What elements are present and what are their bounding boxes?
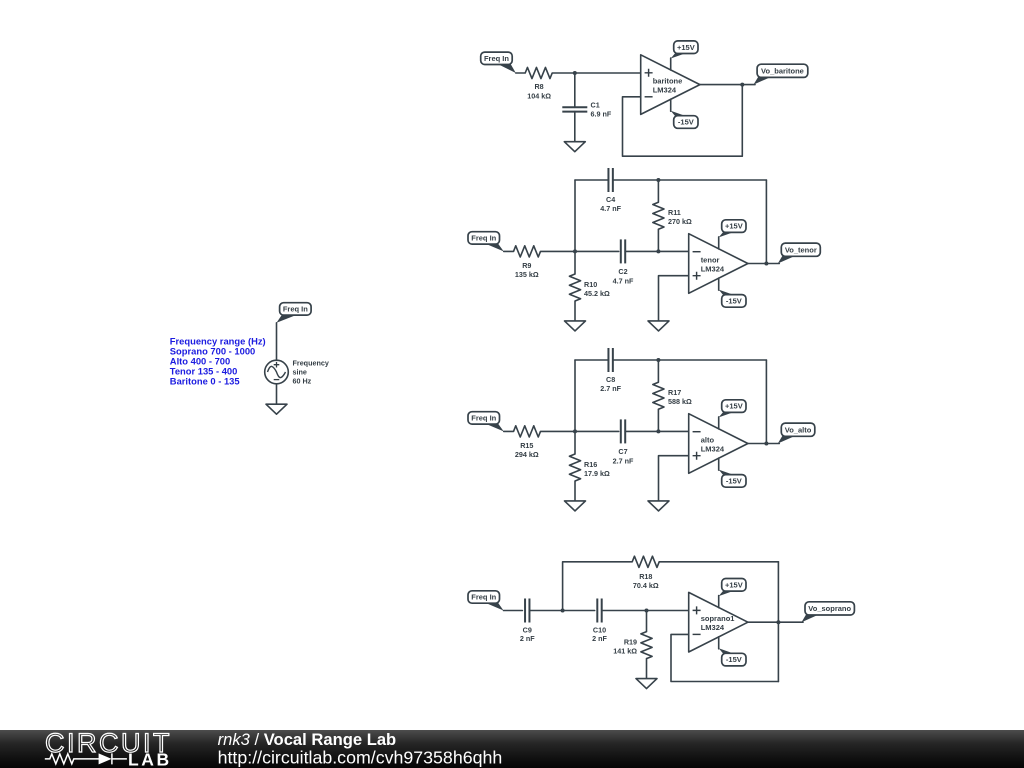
node output junction: [764, 442, 768, 446]
voltage source V1 Frequency sine 60 Hz: [265, 360, 289, 384]
node output junction: [740, 83, 744, 87]
svg-text:Freq In: Freq In: [471, 414, 496, 423]
ground (non-inverting input): [648, 321, 669, 331]
op-amp tenor LM324: [689, 234, 748, 294]
svg-text:http://circuitlab.com/cvh97358: http://circuitlab.com/cvh97358h6qhh: [218, 748, 503, 768]
node junction R8/C1: [573, 71, 577, 75]
node junction R15: [573, 429, 577, 433]
capacitor C7: [620, 419, 622, 443]
svg-text:+15V: +15V: [725, 402, 743, 411]
wire (R17 bottom lead): [657, 409, 659, 431]
wire (power pin): [718, 458, 720, 470]
svg-text:R18: R18: [639, 572, 652, 581]
resistor R18: [632, 556, 659, 567]
wire: [504, 250, 514, 252]
wire (R11 bottom lead): [657, 229, 659, 251]
svg-text:LM324: LM324: [701, 264, 725, 273]
net flag Vo_soprano: [802, 614, 821, 622]
wire (power pin): [670, 58, 672, 70]
svg-text:270 kΩ: 270 kΩ: [668, 217, 692, 226]
ground (non-inverting input): [648, 501, 669, 511]
svg-text:R15: R15: [520, 441, 533, 450]
wire (feedback loop soprano): [671, 634, 778, 681]
svg-text:Freq In: Freq In: [484, 54, 509, 63]
svg-text:R11: R11: [668, 208, 681, 217]
svg-text:Freq In: Freq In: [471, 593, 496, 602]
node output junction soprano: [776, 620, 780, 624]
net flag Freq In: [484, 423, 504, 432]
power flag -15V (tenor): [719, 290, 736, 296]
resistor R8: [525, 67, 552, 78]
wire (+ input to ground): [659, 456, 689, 501]
svg-text:baritone: baritone: [653, 76, 683, 85]
svg-text:LM324: LM324: [653, 85, 677, 94]
CircuitLab logo: diode: [99, 753, 112, 764]
wire: [504, 610, 523, 612]
net flag Freq In (source): [277, 315, 296, 323]
net flag Freq In (baritone): [496, 63, 516, 73]
wire: [516, 72, 525, 74]
svg-text:R16: R16: [584, 460, 597, 469]
svg-text:60 Hz: 60 Hz: [293, 377, 312, 386]
svg-text:Baritone 0 - 135: Baritone 0 - 135: [170, 376, 240, 387]
svg-text:+15V: +15V: [725, 222, 743, 231]
svg-text:Vo_soprano: Vo_soprano: [808, 604, 851, 613]
wire: [504, 430, 514, 432]
wire (top left): [575, 359, 609, 361]
wire (C1 top lead): [574, 73, 576, 107]
svg-text:R8: R8: [534, 82, 543, 91]
wire (power pin): [718, 417, 720, 429]
svg-text:2 nF: 2 nF: [520, 634, 535, 643]
svg-text:R9: R9: [522, 261, 531, 270]
power flag +15V (alto): [719, 411, 736, 417]
svg-text:C1: C1: [591, 101, 600, 110]
svg-text:Vo_baritone: Vo_baritone: [761, 66, 804, 75]
net flag Freq In: [484, 243, 504, 252]
wire (R18 to output): [659, 561, 778, 563]
power flag -15V (baritone): [671, 111, 688, 117]
wire (power pin): [670, 99, 672, 111]
ground (below R16): [565, 501, 586, 511]
node junction C2/R11: [656, 249, 660, 253]
capacitor C1 plates: [562, 106, 587, 108]
wire (R17 top lead): [657, 360, 659, 382]
wire (output): [700, 84, 755, 86]
svg-text:Vo_alto: Vo_alto: [785, 425, 812, 434]
wire (feedback to output): [765, 360, 767, 443]
wire (R11 top lead): [657, 180, 659, 202]
svg-text:C8: C8: [606, 375, 615, 384]
wire (top right): [613, 359, 767, 361]
wire: [552, 72, 641, 74]
net flag Vo_baritone: [754, 76, 773, 84]
wire (R10 top lead): [574, 251, 576, 274]
wire (up to R18): [563, 562, 633, 611]
CircuitLab logo: resistor-diode squiggle: [45, 754, 100, 764]
wire (output): [748, 443, 779, 445]
wire (feedback to output): [765, 180, 767, 263]
op-amp soprano1 LM324: [689, 592, 748, 652]
svg-text:LM324: LM324: [701, 623, 725, 632]
power flag +15V (soprano1): [719, 590, 736, 596]
svg-text:rnk3 / Vocal Range Lab: rnk3 / Vocal Range Lab: [218, 730, 397, 749]
node junction C10/R19: [645, 609, 649, 613]
node junction R9: [573, 249, 577, 253]
resistor R16: [569, 454, 580, 481]
svg-text:294 kΩ: 294 kΩ: [515, 450, 539, 459]
svg-text:C7: C7: [618, 447, 627, 456]
svg-text:-15V: -15V: [726, 655, 742, 664]
svg-text:104 kΩ: 104 kΩ: [527, 91, 551, 100]
footer bar: [0, 730, 1024, 768]
svg-text:4.7 nF: 4.7 nF: [600, 204, 621, 213]
svg-text:-15V: -15V: [726, 297, 742, 306]
svg-text:-15V: -15V: [726, 477, 742, 486]
svg-text:R19: R19: [624, 638, 637, 647]
svg-text:-15V: -15V: [678, 118, 694, 127]
capacitor C2: [620, 239, 622, 263]
svg-text:soprano1: soprano1: [701, 614, 735, 623]
svg-text:70.4 kΩ: 70.4 kΩ: [633, 581, 659, 590]
capacitor C9: [524, 599, 526, 623]
node junction C9/R18: [561, 609, 565, 613]
capacitor C10: [596, 599, 598, 623]
power flag +15V (tenor): [719, 231, 736, 237]
wire (source to ground): [276, 384, 278, 404]
wire (to non-inverting input): [602, 610, 689, 612]
svg-text:tenor: tenor: [701, 255, 720, 264]
op-amp U1 baritone LM324: [641, 55, 700, 115]
wire (+ input to ground): [659, 276, 689, 321]
svg-text:R17: R17: [668, 388, 681, 397]
ground (below C1): [564, 142, 585, 152]
svg-text:LAB: LAB: [128, 750, 172, 768]
power flag +15V (baritone): [671, 53, 688, 59]
wire: [541, 250, 619, 252]
wire (power pin): [718, 637, 720, 649]
ground (below R10): [565, 321, 586, 331]
svg-text:+15V: +15V: [677, 43, 695, 52]
wire (R19 bottom lead): [646, 659, 648, 679]
node output junction: [764, 262, 768, 266]
svg-text:588 kΩ: 588 kΩ: [668, 397, 692, 406]
svg-text:6.9 nF: 6.9 nF: [591, 109, 612, 118]
power flag -15V (alto): [719, 470, 736, 476]
svg-text:45.2 kΩ: 45.2 kΩ: [584, 289, 610, 298]
svg-text:135 kΩ: 135 kΩ: [515, 270, 539, 279]
wire (R16 bottom lead): [574, 481, 576, 501]
resistor R11: [653, 202, 664, 229]
net flag Vo_alto: [778, 435, 797, 443]
wire (R19 top lead): [646, 611, 648, 632]
svg-text:2.7 nF: 2.7 nF: [600, 384, 621, 393]
resistor R17: [653, 382, 664, 409]
svg-text:sine: sine: [293, 368, 307, 377]
wire (power pin): [718, 237, 720, 249]
wire (R10 bottom lead): [574, 301, 576, 321]
wire (power pin): [718, 596, 720, 608]
node junction R11 top: [656, 178, 660, 182]
svg-text:Freq In: Freq In: [283, 305, 308, 314]
svg-text:alto: alto: [701, 435, 715, 444]
op-amp alto LM324: [689, 414, 748, 474]
wire (up to feedback cap): [574, 180, 576, 251]
wire (power pin): [718, 278, 720, 290]
svg-text:Frequency: Frequency: [293, 359, 329, 368]
wire (to inverting input): [625, 430, 689, 432]
svg-text:Freq In: Freq In: [471, 234, 496, 243]
net flag Freq In (soprano): [484, 602, 504, 611]
svg-text:C2: C2: [618, 267, 627, 276]
resistor R15: [514, 426, 541, 437]
wire (R16 top lead): [574, 431, 576, 454]
wire (to inverting input): [625, 250, 689, 252]
wire (feedback loop to inverting input): [623, 85, 743, 157]
wire (C1 bottom lead): [574, 112, 576, 142]
wire: [541, 430, 619, 432]
wire (up to feedback cap): [574, 360, 576, 431]
svg-text:+15V: +15V: [725, 580, 743, 589]
wire (top left): [575, 179, 609, 181]
svg-text:2 nF: 2 nF: [592, 634, 607, 643]
svg-text:C4: C4: [606, 195, 615, 204]
node junction C7/R17: [656, 429, 660, 433]
node junction R17 top: [656, 358, 660, 362]
svg-text:4.7 nF: 4.7 nF: [613, 277, 634, 286]
power flag -15V (soprano1): [719, 648, 736, 654]
resistor R19: [641, 632, 652, 659]
ground (below R19): [636, 679, 657, 689]
wire (top right): [613, 179, 767, 181]
svg-text:Vo_tenor: Vo_tenor: [785, 245, 817, 254]
resistor R9: [514, 246, 541, 257]
wire (output): [748, 621, 803, 623]
capacitor C8: [607, 348, 609, 372]
wire: [529, 610, 594, 612]
svg-text:R10: R10: [584, 280, 597, 289]
svg-text:17.9 kΩ: 17.9 kΩ: [584, 469, 610, 478]
wire (right vertical): [777, 562, 779, 682]
ground (below source): [266, 404, 287, 414]
wire (flag to source): [276, 323, 278, 361]
resistor R10: [569, 274, 580, 301]
net flag Vo_tenor: [778, 255, 797, 263]
svg-text:LM324: LM324: [701, 444, 725, 453]
svg-text:2.7 nF: 2.7 nF: [613, 457, 634, 466]
capacitor C4: [607, 168, 609, 192]
svg-text:141 kΩ: 141 kΩ: [613, 647, 637, 656]
wire (output): [748, 263, 779, 265]
